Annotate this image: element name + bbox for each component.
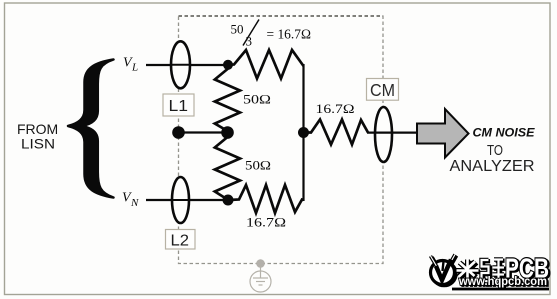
svg-text:LISN: LISN: [21, 136, 55, 152]
label box L2: [166, 230, 196, 250]
svg-text:= 16.7Ω: = 16.7Ω: [267, 28, 312, 43]
svg-text:16.7Ω: 16.7Ω: [316, 101, 355, 116]
wire VL: [146, 64, 228, 66]
resistor R bottom 16.7: [229, 185, 304, 213]
node dot center tap left: [172, 126, 185, 139]
svg-text:CM NOISE: CM NOISE: [473, 126, 536, 140]
inductor L2 winding: [172, 177, 189, 223]
resistor 50 ohm upper: [215, 65, 240, 131]
svg-text:50Ω: 50Ω: [245, 158, 271, 173]
svg-text:CM: CM: [370, 80, 395, 100]
svg-text:50: 50: [231, 22, 244, 37]
wire VN: [146, 199, 229, 201]
node dot center tap right: [221, 126, 234, 139]
logo circle mark: [431, 255, 456, 285]
wire right vertical: [302, 64, 304, 201]
svg-text:L: L: [131, 62, 138, 74]
underline: [452, 288, 549, 291]
svg-text:N: N: [130, 197, 139, 209]
label box CM: [367, 79, 399, 101]
CM choke winding: [375, 107, 392, 162]
resistor R right 16.7: [304, 120, 369, 145]
ground node dot: [256, 259, 265, 268]
qiang glyph: [482, 260, 505, 282]
node dot VL: [223, 60, 233, 70]
svg-text:3: 3: [246, 34, 253, 49]
label box L1: [163, 94, 194, 116]
node dot VN: [223, 195, 234, 206]
block arrow to analyzer: [417, 109, 469, 158]
svg-text:50Ω: 50Ω: [243, 92, 271, 107]
dashed enclosure box: [179, 16, 384, 264]
inductor L1 winding: [171, 41, 190, 88]
wire to analyzer: [367, 132, 418, 134]
hua glyph: [457, 260, 479, 283]
curly brace: [68, 60, 114, 198]
resistor R top 50/3: [228, 50, 304, 79]
svg-text:L2: L2: [171, 233, 190, 250]
svg-text:TO: TO: [487, 142, 503, 159]
wire center tap: [179, 131, 228, 133]
svg-text:L1: L1: [169, 98, 189, 115]
watermark logo: [431, 253, 551, 291]
watermark shadow layer: [432, 254, 550, 290]
ground symbol: [250, 266, 271, 292]
resistor 50 ohm lower: [215, 133, 240, 200]
svg-text:16.7Ω: 16.7Ω: [246, 215, 286, 230]
node dot right: [298, 127, 309, 138]
svg-text:www.hqpcb.com: www.hqpcb.com: [458, 274, 547, 288]
svg-text:ANALYZER: ANALYZER: [450, 158, 535, 175]
